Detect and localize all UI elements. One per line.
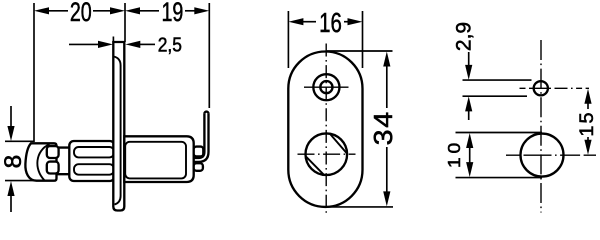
neck between cap and body [57, 148, 71, 175]
dimension 34 lower line segment [386, 147, 388, 194]
dimension 2,5 arrow left (outside, pointing right) [98, 41, 113, 48]
dimension 34 arrow up [383, 52, 390, 67]
contact wire (L-shaped, bent up) [194, 114, 209, 162]
terminal bar lower (stub) [194, 163, 203, 171]
plunger outer boot [124, 136, 193, 182]
dimension 2,5 arrow right (outside, pointing left) [125, 41, 140, 48]
dimension 15 arrow up [584, 89, 591, 104]
dimension 8 bottom extension line [5, 180, 34, 182]
svg-text:8: 8 [0, 155, 27, 169]
rubber cap (left dome) [25, 143, 56, 180]
dimension 34 top extension line [327, 50, 393, 52]
dimension 2,5 leader left [69, 43, 99, 45]
dimension 20 arrow right [110, 7, 125, 14]
lower hole centerline horizontal (dash-dot) [298, 153, 356, 155]
dimension 15 lower line segment [587, 137, 589, 143]
dimension 34 arrow down [383, 191, 390, 206]
dimension 8 arrow down [7, 126, 14, 141]
dimension 8 top extension line [5, 140, 34, 142]
svg-text:20: 20 [70, 0, 92, 28]
dimension 19 line segments [138, 10, 159, 12]
extension line right of dim 16 [362, 11, 364, 68]
dimension 10 bottom extension line [456, 177, 543, 179]
plunger hole chord lower-left [306, 156, 324, 175]
body slot upper [74, 147, 114, 157]
plunger inner line [125, 142, 186, 179]
dimension 16 arrow left [288, 18, 303, 25]
lower plunger hole circle [306, 133, 348, 175]
vertical centerline of plate [325, 44, 327, 214]
upper screw hole outer circle [313, 74, 339, 100]
dimension 10 top extension line [456, 132, 543, 134]
dimension 2,9 arrow up [465, 96, 472, 111]
dimension 2,5 plate-left stub extension [112, 37, 114, 46]
terminal lower [47, 162, 59, 174]
svg-text:10: 10 [444, 139, 464, 168]
large hole horizontal centerline (dash-dot) [506, 154, 596, 156]
upper screw hole inner circle [320, 81, 332, 93]
terminal bar upper (stub) [194, 147, 204, 157]
contact wire rounded tip [204, 112, 208, 114]
dimension 2,9 bottom extension line [463, 95, 528, 97]
svg-text:19: 19 [161, 0, 183, 28]
dimension 20 arrow left [34, 7, 49, 14]
large plunger hole circle [521, 134, 564, 177]
svg-text:16: 16 [319, 8, 342, 39]
extension line plate right edge up (between 20 and 19) [124, 3, 126, 42]
dimension 2,9 arrow down [465, 65, 472, 80]
svg-text:2,5: 2,5 [158, 34, 182, 57]
dimension 16 line segments [301, 21, 316, 23]
plunger hole chord upper-right [330, 134, 347, 154]
dimension 15 upper line segment [587, 101, 589, 109]
dimension 8 upper arrow line [10, 106, 12, 128]
oval mounting plate outline [288, 52, 362, 207]
switch body (main housing) [69, 141, 114, 181]
extension line right of dim 19 [208, 3, 210, 108]
dimension 2,5 leader right [139, 43, 155, 45]
dimension 10 arrow down [466, 162, 473, 177]
svg-text:34: 34 [368, 110, 397, 145]
extension line left of dim 20 [33, 3, 35, 142]
dimension 2,9 top extension line [463, 79, 532, 81]
mounting plate [113, 42, 124, 211]
terminal upper [47, 146, 59, 158]
body slot lower [74, 164, 114, 175]
small hole vertical centerline (dash-dot) [540, 40, 542, 213]
dimension 2,9 upper line segment [468, 52, 470, 68]
dimension 15 arrow down [584, 140, 591, 155]
dimension 16 arrow right [348, 18, 363, 25]
plate inner fold line [114, 57, 121, 205]
upper hole centerline horizontal [304, 86, 349, 88]
svg-text:2,9: 2,9 [453, 22, 476, 51]
dimension 20 line segments [47, 10, 68, 12]
svg-text:15: 15 [576, 110, 597, 136]
small screw hole circle [534, 81, 548, 95]
small hole horizontal centerline (dash-dot) [520, 87, 590, 89]
dimension 19 arrow left [125, 7, 140, 14]
dimension 10 line segment [469, 145, 471, 165]
dimension 34 bottom extension line [326, 206, 393, 208]
dimension 8 arrow up [7, 181, 14, 196]
dimension 34 upper line segment [386, 64, 388, 108]
dimension 19 arrow right [194, 7, 209, 14]
dimension 8 lower arrow line [10, 194, 12, 212]
cap inner crescent curve [37, 144, 49, 180]
dimension 2,9 lower line segment [468, 109, 470, 121]
extension line left of dim 16 [287, 11, 289, 68]
dimension 10 arrow up [466, 133, 473, 148]
